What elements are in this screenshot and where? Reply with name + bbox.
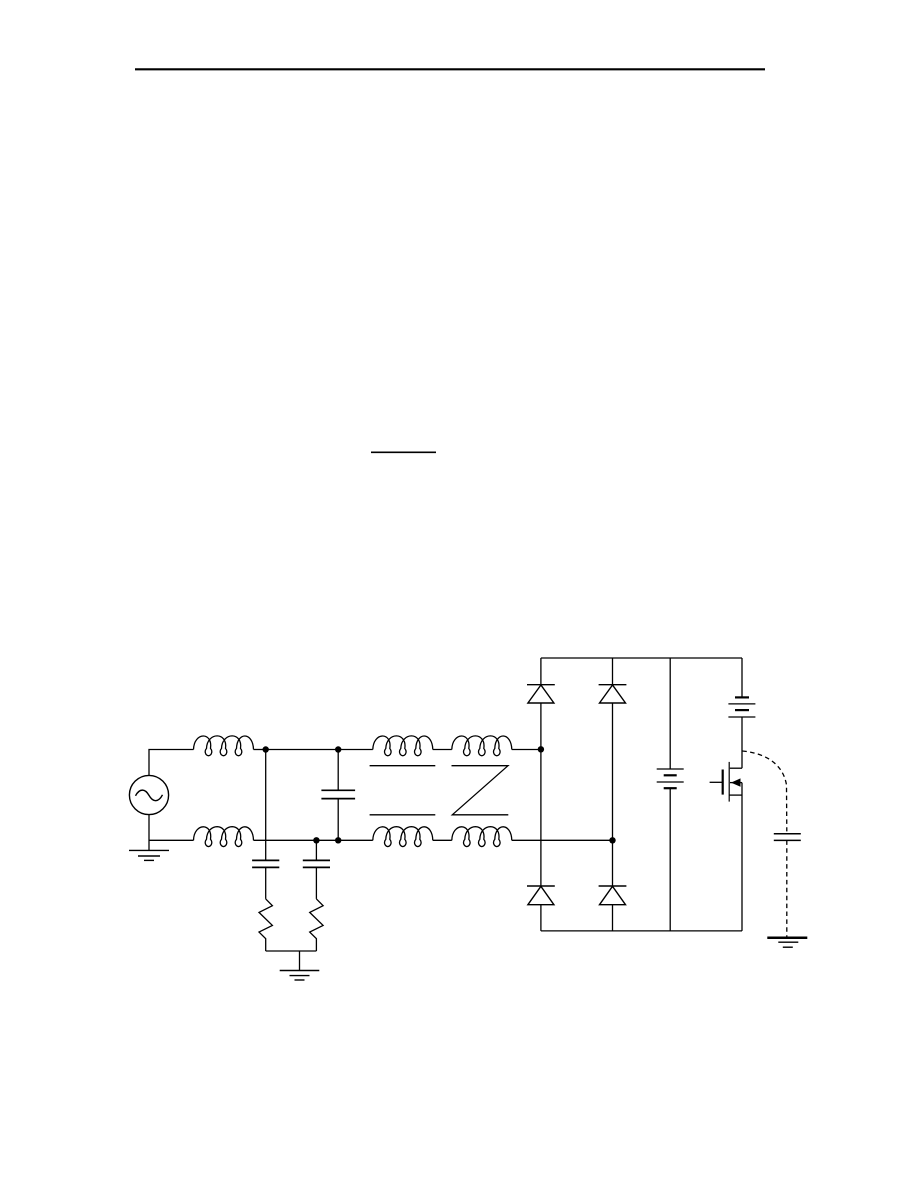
resistor R1 (259, 899, 272, 951)
choke Z mark (452, 766, 509, 815)
wire C2 to R2 (315, 867, 317, 899)
wire C1 to R1 (265, 867, 267, 899)
wire source bottom to ground (148, 815, 150, 851)
node D (313, 837, 319, 843)
transistor Q1 (710, 762, 742, 802)
wire leg2 top (612, 658, 614, 685)
diode D4 (599, 886, 627, 905)
branch 2 vertical from node D (315, 840, 317, 860)
inductor L3a (452, 736, 512, 756)
wire leg3 bottom (669, 788, 671, 931)
bridge top rail (541, 657, 742, 659)
node F (609, 837, 615, 843)
wire leg1 top (540, 658, 542, 685)
wire node D to node E (316, 839, 338, 841)
ground G2 (280, 971, 320, 981)
capacitor C1 (252, 860, 279, 867)
ground G3 (767, 938, 807, 947)
resistor R2 (310, 899, 323, 951)
wire leg1 bottom (540, 905, 542, 931)
node A (263, 746, 269, 752)
wire leg1 middle (540, 703, 542, 886)
inductor L1a (194, 736, 254, 756)
wire leg4 top (741, 658, 743, 697)
inductor L3b (452, 827, 512, 847)
capacitor CX vertical top (337, 750, 339, 791)
wire node B to L2a (338, 749, 373, 751)
capacitor C2 (303, 860, 330, 867)
node C (538, 746, 544, 752)
capacitor CX vertical bottom (337, 799, 339, 841)
wire leg4 to MOSFET drain (741, 717, 743, 768)
inductor L2b (373, 827, 433, 847)
wire MOSFET source to bottom rail (741, 783, 743, 931)
bridge bottom rail (541, 930, 742, 932)
wire leg3 top (669, 658, 671, 769)
inductor L2a (373, 736, 433, 756)
wire leg2 middle (612, 703, 614, 886)
ground G1 (129, 850, 169, 860)
diode D2 (599, 685, 627, 703)
diode D1 (527, 685, 555, 703)
wire L3a to node C (512, 749, 541, 751)
wire node E to L2b (338, 839, 373, 841)
joining wire R1 R2 (266, 950, 317, 952)
inductor L1b (194, 827, 254, 847)
choke core bar bottom (370, 814, 436, 816)
top rule (135, 68, 765, 70)
wire bottom rail source to L1b (149, 839, 194, 841)
AC source V1 (129, 775, 168, 814)
branch 1 vertical from node A (265, 750, 267, 861)
node B (335, 746, 341, 752)
node E (335, 837, 341, 843)
wire source top to L1a (149, 750, 194, 776)
wire L3b to node F (512, 839, 613, 841)
blank underline (371, 451, 436, 453)
dashed parasitic path (742, 751, 787, 831)
parasitic capacitor C4 (774, 834, 801, 841)
battery B2 (728, 697, 755, 717)
wire to ground G2 (299, 951, 301, 971)
wire L1a to node A (254, 749, 266, 751)
wire L2b to L3b (433, 839, 452, 841)
wire L2a to L3a (433, 749, 452, 751)
wire node A to node B (266, 749, 339, 751)
battery B1 (657, 769, 684, 788)
wire leg2 bottom (612, 905, 614, 931)
diode D3 (527, 886, 555, 905)
dashed wire C4 to ground (786, 840, 788, 937)
choke core bar top (370, 765, 436, 767)
capacitor CX (321, 790, 355, 798)
wire L1b to node D (254, 839, 317, 841)
